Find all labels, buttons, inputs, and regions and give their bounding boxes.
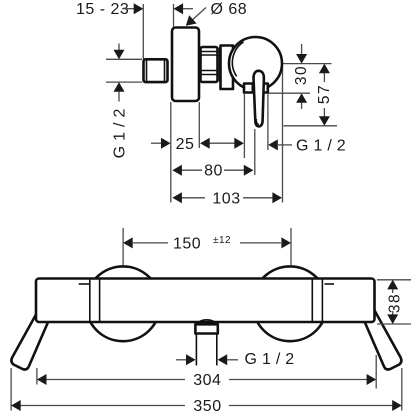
svg-text:G1/2: G1/2	[112, 104, 129, 159]
G1/2 bottom left arrow	[176, 359, 187, 361]
outlet left extension line	[243, 94, 245, 158]
dim 30 bottom arrow	[301, 103, 303, 110]
svg-text:±12: ±12	[213, 235, 231, 246]
dim 15-23 left arrow	[122, 8, 135, 10]
lever tip level line	[284, 125, 338, 127]
outlet housing	[244, 84, 268, 93]
dim 25/G12 shared double arrow	[202, 142, 242, 144]
mixer bar	[36, 279, 375, 323]
outlet right extension line	[267, 94, 269, 150]
bar right thick divider	[311, 280, 313, 322]
outlet collar	[195, 324, 217, 333]
left escutcheon circle	[86, 266, 161, 341]
dim 25 left arrow	[151, 142, 162, 144]
svg-text:G1/2: G1/2	[245, 351, 300, 368]
dim 15-23 right arrow	[183, 8, 193, 10]
150 dim right extension	[290, 228, 292, 265]
dia 68 leader	[189, 8, 206, 24]
svg-text:150: 150	[173, 236, 201, 253]
outlet level line	[269, 92, 311, 94]
right escutcheon circle	[253, 266, 328, 341]
union nut (wall connection)	[144, 59, 168, 82]
spacer plate	[219, 48, 221, 82]
G1/2 left up arrow	[118, 91, 120, 102]
svg-text:30: 30	[293, 65, 310, 85]
centre level line	[283, 63, 332, 65]
G1/2 bottom right arrow	[218, 354, 228, 365]
svg-text:15 - 23: 15 - 23	[76, 1, 129, 18]
outlet dome	[196, 320, 217, 325]
dim 304 extensions	[36, 368, 38, 385]
G1/2 left extension lines	[106, 58, 142, 60]
svg-text:G1/2: G1/2	[296, 138, 351, 155]
svg-text:Ø 68: Ø 68	[211, 1, 248, 18]
bar right tick	[325, 283, 335, 285]
dim 38 bottom arrow	[392, 311, 394, 315]
dim 150 row	[133, 242, 168, 244]
bar right thin divider	[321, 280, 323, 322]
body highlight arc	[232, 42, 243, 76]
lever tip inner arc	[256, 119, 259, 124]
bar left tick	[79, 283, 89, 285]
left supply pipe	[11, 310, 48, 370]
mixer body (circle)	[229, 37, 282, 90]
connector nut with ridges	[201, 47, 218, 82]
svg-text:103: 103	[212, 190, 240, 207]
outlet nipple	[195, 334, 197, 366]
G1/2 left down arrow	[118, 44, 120, 52]
extension line 15-23 left	[142, 4, 144, 59]
dim 38 extension lines	[377, 279, 411, 281]
wall escutcheon (side)	[172, 28, 199, 102]
svg-text:25: 25	[176, 136, 195, 153]
svg-text:80: 80	[204, 163, 223, 180]
150 dim left extension	[122, 228, 124, 265]
escutcheon right extension line	[198, 102, 200, 148]
svg-text:350: 350	[193, 398, 221, 415]
svg-text:57: 57	[316, 84, 333, 104]
bar left thin divider	[89, 280, 91, 322]
dim 30 top arrow	[301, 44, 303, 55]
dim 38 top arrow	[387, 280, 398, 290]
dim 80 row	[181, 169, 202, 171]
dim 57 bottom arrow	[323, 108, 325, 117]
lever handle	[254, 71, 264, 127]
extension line 15-23 right	[173, 4, 175, 27]
connector nut ridge lines	[201, 51, 218, 53]
outlet housing step	[251, 85, 253, 93]
right supply pipe	[364, 310, 401, 370]
dim 350 extensions	[10, 368, 12, 411]
svg-text:38: 38	[387, 293, 404, 313]
extension line 103 right (body front)	[282, 66, 284, 203]
bar left thick divider	[99, 280, 101, 322]
extension line 80 right (body centre)	[254, 129, 256, 175]
dim 103 row	[181, 197, 205, 199]
dim 350 row	[21, 405, 186, 407]
dim 304 row	[46, 379, 185, 381]
dim 57 top arrow	[319, 64, 330, 74]
body column	[221, 46, 234, 90]
svg-text:304: 304	[193, 372, 221, 389]
wall extension line	[170, 102, 172, 203]
union nut inner lines	[146, 61, 148, 82]
G1/2 right leader arrow	[268, 139, 278, 150]
